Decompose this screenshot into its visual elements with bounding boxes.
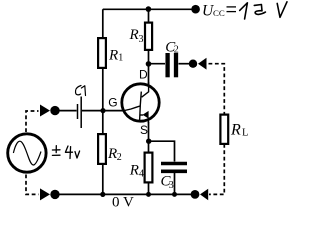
svg-text:L: L bbox=[242, 127, 248, 138]
svg-text:G: G bbox=[108, 96, 117, 110]
svg-text:R: R bbox=[108, 48, 118, 64]
svg-text:4: 4 bbox=[139, 169, 144, 180]
svg-text:S: S bbox=[140, 123, 148, 137]
svg-text:R: R bbox=[230, 122, 241, 139]
svg-text:3: 3 bbox=[139, 34, 144, 45]
svg-text:D: D bbox=[139, 67, 148, 81]
svg-text:CC: CC bbox=[213, 8, 225, 18]
svg-text:R: R bbox=[107, 146, 117, 162]
svg-text:3: 3 bbox=[169, 180, 174, 191]
svg-text:2: 2 bbox=[117, 152, 122, 163]
svg-text:1: 1 bbox=[118, 53, 123, 64]
svg-text:0 V: 0 V bbox=[112, 195, 134, 211]
svg-text:2: 2 bbox=[174, 45, 179, 56]
svg-text:R: R bbox=[129, 162, 139, 178]
svg-text:R: R bbox=[129, 27, 139, 43]
